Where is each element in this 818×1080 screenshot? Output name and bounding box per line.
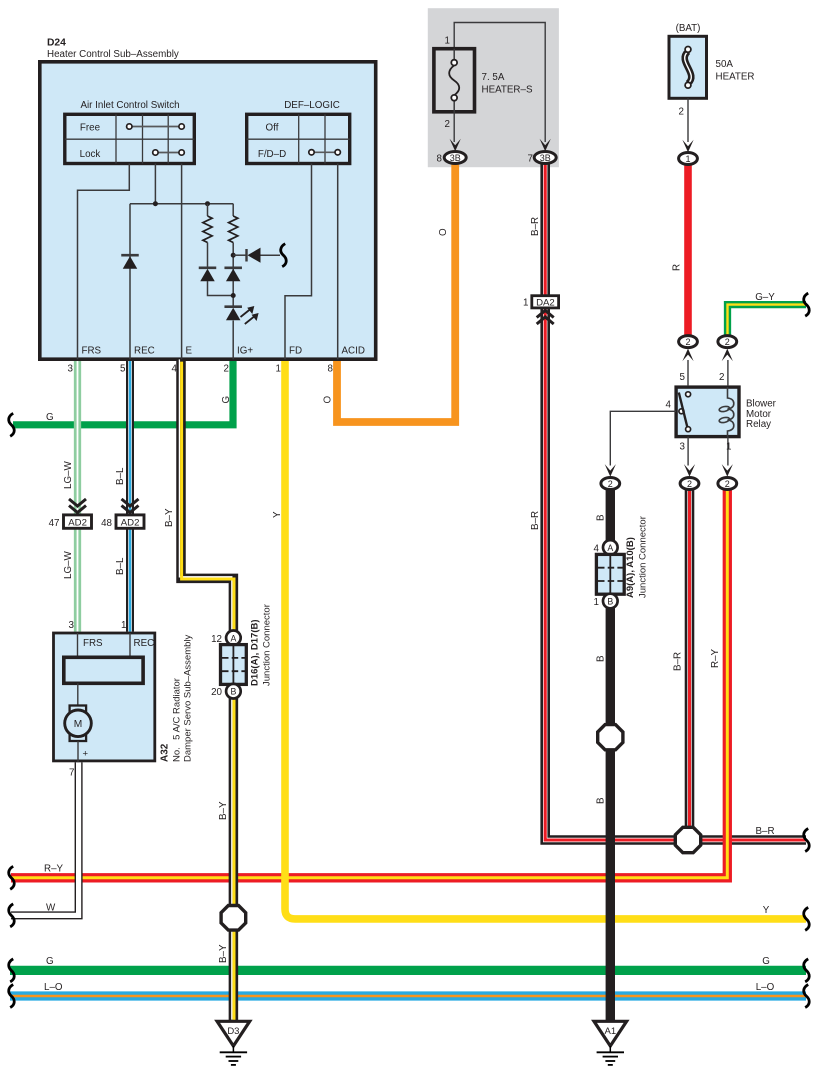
wire L-O bottom horizontal <box>10 991 806 1000</box>
svg-text:Junction Connector: Junction Connector <box>638 516 649 598</box>
component A32 servo sub-assembly box <box>54 633 155 761</box>
svg-text:AD2: AD2 <box>121 518 140 529</box>
svg-text:REC: REC <box>134 638 155 649</box>
svg-text:HEATER: HEATER <box>716 71 755 82</box>
svg-text:1: 1 <box>594 597 599 608</box>
resistor block A32 <box>64 657 143 683</box>
relay coil <box>728 387 734 437</box>
node junction dot <box>205 201 210 206</box>
svg-text:5: 5 <box>120 364 126 375</box>
svg-text:IG+: IG+ <box>237 346 253 357</box>
junction connector D16/D17 grid <box>221 645 247 685</box>
diode D-REC <box>121 254 139 257</box>
break squiggle G bottom right <box>804 959 810 982</box>
svg-text:G: G <box>46 956 54 967</box>
svg-text:B–R: B–R <box>755 826 774 837</box>
connector DA2 box <box>532 296 559 308</box>
wire G-Y from right edge to connector 2 <box>728 305 807 336</box>
svg-text:R: R <box>672 264 683 271</box>
svg-text:B: B <box>596 514 607 521</box>
svg-text:Free: Free <box>80 123 101 134</box>
svg-text:FRS: FRS <box>82 346 102 357</box>
connector 2 (red feed) <box>679 336 698 348</box>
svg-text:LG–W: LG–W <box>63 550 74 579</box>
node junction dot <box>153 201 158 206</box>
connector circle A (A9) <box>603 540 618 555</box>
wire G (green) bottom horizontal <box>10 966 806 975</box>
arrow into connector 2 (pin3 branch) <box>684 464 695 477</box>
LED arrows <box>241 309 251 317</box>
wire B-R from relay pin 3 to junction <box>685 490 695 830</box>
svg-text:5: 5 <box>680 372 686 383</box>
relay Blower Motor Relay box <box>676 387 739 437</box>
wire G (green) horizontal from left edge to IG+ pin <box>13 361 233 425</box>
connector circle B (A10) <box>603 594 618 609</box>
switch contact Lock row <box>155 152 181 154</box>
svg-text:DEF–LOGIC: DEF–LOGIC <box>284 100 340 111</box>
break squiggle B-R right <box>804 829 810 852</box>
break squiggle G left <box>9 413 15 436</box>
wire internal bus at y204 <box>130 203 233 205</box>
svg-text:2: 2 <box>445 119 450 130</box>
wire col3 drop <box>154 164 156 204</box>
svg-text:D16(A), D17(B): D16(A), D17(B) <box>250 619 261 686</box>
svg-text:No. 5 A/C Radiator: No. 5 A/C Radiator <box>172 678 183 762</box>
wire O (orange) from ACID pin up to 3B(8) <box>337 162 455 422</box>
svg-text:R–Y: R–Y <box>44 863 64 874</box>
svg-text:4: 4 <box>666 399 672 410</box>
arrow up to connector 2 (pin5) <box>682 349 693 362</box>
node junction dot <box>231 253 236 258</box>
break squiggle G-Y right <box>804 293 810 316</box>
svg-text:2: 2 <box>224 364 229 375</box>
arrow into connector 1 <box>682 140 693 153</box>
wire B-R from 3B(7) to right edge <box>545 163 806 840</box>
svg-text:FRS: FRS <box>83 638 103 649</box>
resistor R1 <box>203 216 212 243</box>
svg-text:B: B <box>596 797 607 804</box>
LED D-LED <box>224 305 242 308</box>
wire LG-W from D24 pin 3 to A32 pin 3 <box>74 361 81 632</box>
svg-text:AD2: AD2 <box>68 518 87 529</box>
svg-text:M: M <box>74 719 83 730</box>
svg-text:3: 3 <box>68 364 74 375</box>
svg-text:B–Y: B–Y <box>218 801 229 820</box>
svg-text:B: B <box>596 655 607 662</box>
break squiggle W left <box>9 904 15 927</box>
svg-text:48: 48 <box>101 518 112 529</box>
svg-text:Damper Servo Sub–Assembly: Damper Servo Sub–Assembly <box>183 635 194 762</box>
connector 2 (B-R wire) <box>680 478 699 490</box>
svg-text:3: 3 <box>680 442 686 453</box>
svg-text:47: 47 <box>49 518 60 529</box>
svg-text:1: 1 <box>685 154 690 164</box>
relay contact circles <box>686 392 691 397</box>
wire A32 motor to pin 7 <box>77 741 79 762</box>
svg-text:4: 4 <box>594 543 600 554</box>
svg-text:B–Y: B–Y <box>218 944 229 963</box>
chevrons AD2 (47) <box>69 499 86 506</box>
wire below diode A <box>208 281 234 296</box>
svg-text:7: 7 <box>528 154 533 165</box>
arrow into 3B(7) <box>540 139 551 152</box>
svg-text:G: G <box>46 412 54 423</box>
svg-text:G: G <box>221 396 232 404</box>
fusible link element <box>685 52 692 84</box>
svg-text:A: A <box>607 543 613 553</box>
wire resistor2 leads <box>232 204 234 216</box>
svg-text:A32: A32 <box>160 743 171 762</box>
svg-text:7. 5A: 7. 5A <box>482 72 505 83</box>
svg-text:B–R: B–R <box>673 652 684 671</box>
wire A32 REC lead <box>129 633 131 657</box>
svg-text:B–R: B–R <box>530 217 541 236</box>
component D24 Heater Control Sub-Assembly box <box>40 62 376 359</box>
svg-text:2: 2 <box>687 479 692 489</box>
svg-text:D24: D24 <box>47 38 66 49</box>
svg-text:D3: D3 <box>227 1026 239 1037</box>
svg-text:O: O <box>323 396 334 404</box>
svg-text:O: O <box>438 228 449 236</box>
svg-text:1: 1 <box>445 36 450 47</box>
chevrons AD2 (48) <box>122 499 139 506</box>
connector 3B (pin 7) <box>534 152 556 164</box>
svg-text:3B: 3B <box>450 153 461 163</box>
svg-text:L–O: L–O <box>756 982 775 993</box>
svg-text:1: 1 <box>523 297 528 308</box>
relay blade <box>679 393 688 428</box>
break squiggle L-O right <box>804 985 810 1008</box>
wire LED to IG+ pin <box>232 321 234 360</box>
svg-text:W: W <box>46 903 56 914</box>
svg-text:Relay: Relay <box>746 419 771 430</box>
svg-text:3: 3 <box>69 620 75 631</box>
svg-text:50A: 50A <box>716 59 734 70</box>
switch contact F/D-D row <box>312 151 338 153</box>
svg-text:A9(A), A10(B): A9(A), A10(B) <box>625 537 636 598</box>
svg-text:2: 2 <box>608 479 613 489</box>
wire relay pin 3 lead <box>687 437 689 466</box>
svg-text:1: 1 <box>276 364 281 375</box>
svg-text:B: B <box>607 597 613 607</box>
break squiggle G bottom left <box>9 959 15 982</box>
wire to left diode <box>233 254 246 256</box>
break squiggle R-Y left <box>9 866 15 889</box>
connector 2 (R-Y wire) <box>718 478 737 490</box>
fuse 7.5A HEATER-S rectangle <box>434 49 475 112</box>
wire FRS internal (table col2 to pin 3) <box>78 164 130 360</box>
svg-text:G: G <box>762 956 770 967</box>
wire relay pin 2 lead <box>727 360 729 385</box>
connector 1 <box>679 153 698 165</box>
wire 50A pin 2 down <box>687 98 689 142</box>
wire FD internal <box>285 164 312 360</box>
resistor R2 <box>229 216 238 243</box>
wire relay pin 4 to connector <box>610 411 676 465</box>
svg-text:E: E <box>186 346 193 357</box>
connector 2 (G-Y feed) <box>718 336 737 348</box>
wire REC internal vertical <box>129 204 131 360</box>
junction block (gray box) around fuse HEATER-S <box>428 8 559 167</box>
svg-text:R–Y: R–Y <box>710 648 721 668</box>
connector circle B (D17) <box>226 684 241 699</box>
svg-text:Y: Y <box>272 511 283 518</box>
svg-text:G–Y: G–Y <box>755 292 775 303</box>
wire E internal <box>181 164 183 360</box>
break squiggle L-O left <box>9 985 15 1008</box>
wire fuse loop (pin1 up over to 3B(7)) <box>454 23 545 143</box>
svg-text:REC: REC <box>134 346 155 357</box>
svg-text:Heater Control Sub–Assembly: Heater Control Sub–Assembly <box>47 49 179 60</box>
wire A32 FRS lead <box>77 633 79 657</box>
wire relay pin 1 lead <box>727 437 729 466</box>
connector circle A (D16) <box>226 631 241 646</box>
svg-text:2: 2 <box>725 337 730 347</box>
wire B-L from D24 pin 5 to A32 pin 1 <box>126 361 134 632</box>
svg-text:2: 2 <box>685 337 690 347</box>
wire Y (yellow) from FD pin to right edge <box>285 361 806 919</box>
break squiggle internal <box>281 244 287 267</box>
arrow up to connector 2 (pin2) <box>722 349 733 362</box>
ground D3 <box>217 1021 250 1046</box>
svg-text:+: + <box>83 749 89 760</box>
junction octagon on B <box>598 725 623 750</box>
fusible link 50A HEATER box <box>669 36 707 98</box>
wire B-Y from D24 pin 4 via jog to ground D3 <box>181 361 233 1021</box>
diode D-left (to squiggle) <box>245 249 247 262</box>
switch contact Free row <box>129 126 181 128</box>
svg-text:B–R: B–R <box>530 511 541 530</box>
wire A32 resistor to motor <box>77 683 79 706</box>
wire fuse pin2 down <box>453 112 455 143</box>
svg-text:2: 2 <box>679 107 684 118</box>
wire relay pin 5 lead <box>687 360 689 385</box>
svg-text:L–O: L–O <box>44 982 63 993</box>
svg-text:1: 1 <box>726 442 731 453</box>
svg-text:B–L: B–L <box>115 557 126 575</box>
connector 2 (B wire) <box>601 478 620 490</box>
junction octagon on B-Y <box>221 906 246 931</box>
svg-text:B: B <box>230 687 236 697</box>
connector AD2 (47) box <box>64 515 92 528</box>
svg-text:(BAT): (BAT) <box>676 23 701 34</box>
wire B (black) from relay pin 4 connector to ground A1 <box>606 490 615 1021</box>
svg-text:1: 1 <box>121 620 126 631</box>
svg-text:ACID: ACID <box>342 346 365 357</box>
svg-text:B–Y: B–Y <box>164 508 175 527</box>
svg-text:DA2: DA2 <box>536 298 555 309</box>
wire R-Y from relay pin 1 to left edge <box>11 490 727 878</box>
svg-text:F/D–D: F/D–D <box>258 149 286 160</box>
svg-text:8: 8 <box>328 364 334 375</box>
diode D-B <box>224 266 242 269</box>
svg-text:Air Inlet Control Switch: Air Inlet Control Switch <box>80 100 179 111</box>
arrow into connector 2 (pin1 branch) <box>722 464 733 477</box>
motor M (A32) <box>70 706 87 713</box>
diode D-A <box>199 266 217 269</box>
arrow into 3B(8) <box>450 139 461 152</box>
ground A1 <box>594 1021 627 1046</box>
svg-text:Junction Connector: Junction Connector <box>262 604 273 686</box>
connector AD2 (48) box <box>116 515 144 528</box>
fuse element <box>453 49 455 60</box>
svg-text:2: 2 <box>719 372 724 383</box>
svg-text:A: A <box>230 633 236 643</box>
svg-text:20: 20 <box>211 687 222 698</box>
svg-text:3B: 3B <box>540 153 551 163</box>
junction connector A9/A10 grid <box>596 554 624 594</box>
break squiggle Y right <box>804 907 810 930</box>
node junction dot <box>231 293 236 298</box>
svg-text:LG–W: LG–W <box>63 460 74 489</box>
svg-text:Y: Y <box>763 905 770 916</box>
svg-text:FD: FD <box>289 346 302 357</box>
svg-text:B–L: B–L <box>115 467 126 485</box>
wire W (white) from A32 pin 7 to left edge <box>11 762 79 915</box>
connector 3B (pin 8) <box>444 152 466 164</box>
svg-text:7: 7 <box>69 768 74 779</box>
wire R (red) from connector 1 to connector 2 <box>684 163 692 336</box>
wire resistor1 leads <box>207 204 209 216</box>
arrow into connector 2 (pin4 branch) <box>605 464 616 477</box>
wire ACID internal <box>337 164 339 360</box>
svg-text:HEATER–S: HEATER–S <box>482 84 533 95</box>
chevrons DA2 <box>537 317 554 324</box>
svg-text:A1: A1 <box>604 1026 616 1037</box>
junction octagon on B-R <box>675 827 700 852</box>
svg-text:Off: Off <box>266 123 279 134</box>
svg-text:Lock: Lock <box>80 149 101 160</box>
svg-text:8: 8 <box>437 154 443 165</box>
svg-text:2: 2 <box>725 479 730 489</box>
